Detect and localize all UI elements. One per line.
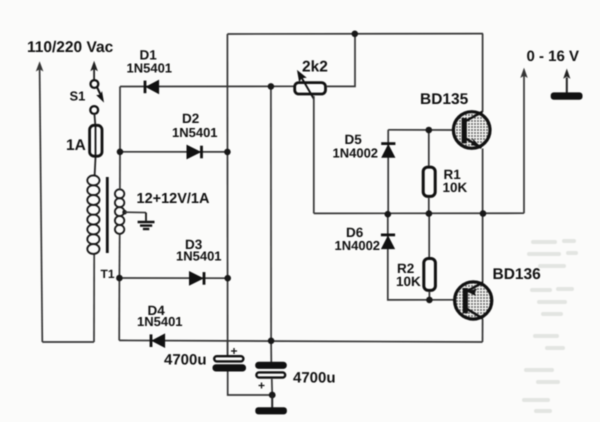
node top rail / pot riser [352, 31, 359, 38]
svg-text:4700u: 4700u [293, 370, 336, 387]
svg-text:0 - 16 V: 0 - 16 V [527, 48, 580, 65]
svg-text:1N5401: 1N5401 [172, 125, 218, 140]
wire BD135 base line [388, 129, 453, 131]
switch S1 lever arrow [96, 88, 104, 103]
wire secondary bottom to T1 node [118, 235, 120, 279]
transformer T1 core [106, 177, 109, 253]
capacitor C2 4700u [255, 341, 287, 395]
wire mid rail [314, 212, 524, 214]
output terminal symbol [551, 69, 583, 100]
svg-text:+: + [258, 379, 265, 393]
diode D3 [190, 272, 205, 285]
node R2 bottom / BD136 base [426, 297, 433, 304]
node D1 line / x271 [268, 83, 275, 90]
wire R2 top lead [428, 213, 430, 257]
wire D5 branch corner [387, 130, 389, 214]
wire D6 branch [388, 213, 454, 300]
node D3 right [224, 275, 231, 282]
wire D4 line [119, 340, 482, 342]
transformer T1 primary winding [87, 175, 99, 254]
svg-text:10K: 10K [396, 274, 421, 289]
faint scan bleed-through noise, right margin (decorative) [522, 239, 578, 413]
wire D1 line [120, 85, 294, 87]
transformer T1 secondary winding [115, 189, 124, 234]
common terminal symbol [255, 392, 287, 415]
svg-text:1N5401: 1N5401 [176, 249, 222, 264]
diode D5 [381, 144, 395, 158]
transistor Q1 BD135 [453, 34, 490, 214]
wire primary bottom riser [93, 254, 95, 342]
wire pot wiper down to mid rail [313, 96, 315, 213]
diode D6 [381, 235, 395, 249]
wire bottom-left return [42, 341, 94, 343]
svg-text:1N4002: 1N4002 [333, 145, 379, 160]
svg-text:1N5401: 1N5401 [127, 61, 173, 76]
wire x227 vertical rail [226, 34, 228, 356]
fuse F1 1A body [95, 124, 97, 158]
resistor R2 body [424, 259, 436, 291]
node base line / R1 top [426, 127, 433, 134]
diode D4 [151, 334, 165, 347]
wire T1 node down to D4 corner [118, 278, 120, 340]
wire secondary top to D2 node [119, 152, 121, 190]
svg-text:D2: D2 [182, 111, 199, 126]
diode D1 [145, 80, 159, 93]
node mid rail / D5 branch [385, 211, 392, 218]
wire D2 line [120, 151, 227, 153]
node T1 secondary bottom [116, 275, 123, 282]
diode D2 [187, 145, 202, 158]
node D2 right [224, 149, 231, 156]
wire R1 top lead [428, 130, 430, 166]
transistor Q2 BD136 [455, 213, 492, 342]
wire R2 bottom lead [428, 292, 430, 300]
wire D1 corner down [119, 87, 121, 152]
node D2 left [117, 149, 124, 156]
svg-text:1N5401: 1N5401 [137, 314, 183, 329]
svg-text:+: + [231, 344, 238, 358]
svg-text:10K: 10K [443, 180, 468, 195]
resistor R1 body [423, 167, 435, 196]
center tap wire [122, 210, 127, 215]
svg-text:T1: T1 [101, 267, 115, 281]
svg-text:1N4002: 1N4002 [335, 238, 381, 253]
svg-text:4700u: 4700u [164, 352, 207, 369]
switch S1 bottom contact [90, 106, 98, 114]
svg-text:110/220 Vac: 110/220 Vac [27, 39, 114, 56]
switch S1 arrow lead [90, 61, 98, 80]
svg-text:12+12V/1A: 12+12V/1A [137, 191, 210, 207]
ground symbol [138, 213, 155, 229]
capacitor C1 4700u [213, 341, 273, 395]
wire output lead with arrow [520, 68, 527, 214]
potentiometer P1 2k2 body [295, 83, 326, 94]
wire R1 bottom lead [428, 198, 430, 214]
svg-text:2k2: 2k2 [302, 59, 328, 76]
svg-text:BD136: BD136 [493, 266, 542, 283]
switch S1 top contact [91, 80, 99, 88]
node mid rail / R1 [426, 210, 433, 217]
wire top rail [227, 33, 483, 35]
wire left mains lead with arrow [36, 61, 44, 342]
node D4 line / C2 [268, 338, 275, 345]
svg-text:1A: 1A [66, 137, 86, 154]
potentiometer wiper arrow [297, 71, 314, 99]
wire switch to fuse [94, 114, 95, 126]
wire D3 line [119, 277, 227, 279]
node mid rail / BD135 emitter [480, 210, 487, 217]
wire fuse to primary [94, 158, 97, 176]
wire x271 vertical (D1 node to cap C2) [270, 86, 272, 341]
wire pot right lead to top rail [327, 34, 355, 86]
svg-text:BD135: BD135 [420, 91, 469, 108]
svg-text:S1: S1 [70, 89, 86, 104]
